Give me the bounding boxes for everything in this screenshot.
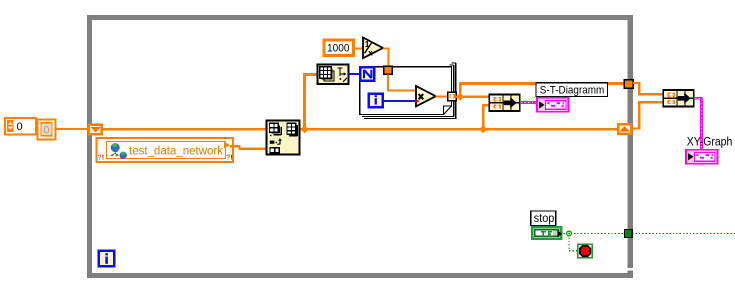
iteration terminal i (while loop) (99, 251, 114, 266)
bottom two-cell grid (270, 148, 279, 153)
bundle 1 (489, 95, 520, 112)
S-T graph terminal (537, 98, 569, 112)
boolean terminal TF (531, 226, 563, 240)
insert into array icon (267, 121, 300, 155)
wire: main 2D-array wire across loop (101, 128, 618, 131)
coercion dot (415, 99, 419, 103)
wire: TF to condition tunnel (boolean dotted) (564, 234, 735, 251)
svg-text:0: 0 (43, 125, 49, 137)
wire: bundle2 to XY graph terminal (cluster) (694, 98, 703, 150)
wire: matrix size to N (I32) (348, 73, 360, 75)
svg-text:S-T-Diagramm: S-T-Diagramm (540, 84, 605, 96)
wire: multiply to indexing tunnel (436, 95, 449, 97)
svg-text:?!: ?! (226, 155, 233, 162)
wire: right tunnel to bundle2 upper input (633, 83, 663, 94)
bundle 2 (663, 90, 694, 107)
svg-text:XY-Graph: XY-Graph (687, 137, 733, 149)
wire: i to multiply (383, 100, 416, 102)
label stop (531, 211, 556, 226)
reciprocal 1/x (363, 38, 383, 59)
wire: 1000 to reciprocal (354, 48, 364, 50)
wire: riser to matrix icon (303, 74, 306, 129)
insert glyphs (270, 141, 275, 144)
node junction on main wire (bundle riser) (479, 125, 487, 133)
svg-text:?!: ?! (98, 155, 105, 162)
globe icon (111, 143, 127, 158)
for loop frame (360, 63, 456, 118)
numeric constant 1000 (324, 40, 354, 56)
label S-T-Diagramm (536, 83, 608, 97)
numeric control terminal (5, 118, 36, 135)
svg-text:test_data_network: test_data_network (129, 146, 223, 158)
svg-text:stop: stop (534, 213, 555, 225)
numeric constant 0 (38, 119, 56, 139)
node run arrow (224, 142, 230, 149)
shared variable node test_data_network (97, 138, 234, 162)
top-right array grid with shadow (287, 123, 297, 136)
wire: bundle1 to S-T terminal (cluster) (520, 101, 538, 104)
multiply (416, 86, 436, 106)
tunnel on right loop border (array out) (624, 80, 633, 89)
node junction on main wire (riser) (301, 125, 309, 133)
while loop border (87, 15, 633, 278)
tunnel on for loop top border (384, 66, 392, 74)
matrix size icon (317, 64, 348, 84)
left shift register (89, 125, 102, 134)
node junction after tunnel (456, 93, 464, 101)
iteration terminal i (for loop) (369, 94, 383, 108)
top-left array grid with shadow (270, 123, 282, 134)
svg-text:1000: 1000 (327, 43, 350, 55)
wire: bundle1 lower input riser (483, 105, 489, 128)
boolean tunnel on right loop border (625, 230, 633, 238)
svg-text:0: 0 (17, 121, 23, 133)
wire: reciprocal to for-loop tunnel (383, 49, 388, 67)
svg-text:x: x (368, 47, 373, 57)
wire: tunnel to bundle1 upper input (456, 96, 490, 98)
wire: tunnel down to multiply (388, 74, 416, 90)
auto-indexing tunnel [] (448, 92, 456, 101)
XY graph terminal (686, 150, 718, 164)
wire: shift register to bundle2 lower input (633, 102, 664, 128)
right shift register (618, 124, 631, 133)
wire: control/constant to left shift register (55, 128, 90, 130)
loop condition terminal (stop sign) (578, 244, 593, 258)
wire: shared variable output to insert icon (230, 146, 267, 148)
wire: riser to long top wire (459, 83, 461, 97)
wire: long top wire to right tunnel (459, 82, 628, 85)
node junction (boolean) (567, 231, 572, 236)
count terminal N (360, 67, 374, 81)
